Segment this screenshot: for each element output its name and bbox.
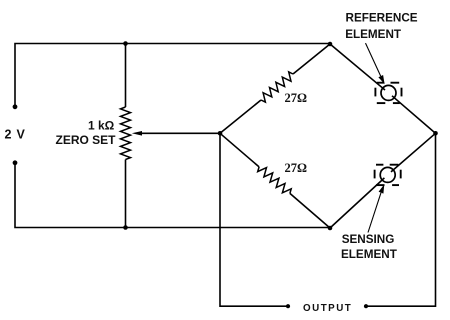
node pot-bottom junction xyxy=(123,225,128,230)
leader sensing arrowhead xyxy=(379,184,385,193)
node bridge right xyxy=(433,131,438,136)
wire sensing-to-right-node xyxy=(391,133,436,172)
wire bottom rail xyxy=(15,163,330,228)
wire output right drop xyxy=(366,133,436,306)
node pot-top junction xyxy=(123,41,128,46)
leader sensing xyxy=(368,193,381,233)
wire pot bottom xyxy=(125,160,127,228)
svg-text:OUTPUT: OUTPUT xyxy=(303,303,352,314)
sensing element circle xyxy=(380,167,395,182)
wire bridge bottom-right (into sensing element) xyxy=(330,178,384,228)
sensing element dashed box xyxy=(375,165,401,185)
svg-text:27Ω: 27Ω xyxy=(285,91,308,105)
reference element circle xyxy=(381,85,396,100)
wire pot top xyxy=(125,44,127,108)
wire bridge top-right (into reference element) xyxy=(330,44,385,90)
svg-text:REFERENCE: REFERENCE xyxy=(346,12,418,25)
svg-text:SENSING: SENSING xyxy=(342,233,395,246)
svg-text:ZERO SET: ZERO SET xyxy=(56,133,117,147)
wire bridge bottom-left upper xyxy=(220,133,259,167)
potentiometer 1kΩ ZERO SET xyxy=(121,107,131,160)
wire bridge top-left upper xyxy=(293,44,330,74)
output terminal left xyxy=(286,304,290,308)
svg-text:ELEMENT: ELEMENT xyxy=(345,28,402,41)
node bridge bottom xyxy=(328,226,333,231)
leader reference arrowhead xyxy=(378,75,384,84)
wire bridge bottom-left lower xyxy=(290,193,330,228)
wire wiper xyxy=(142,132,220,134)
leader reference xyxy=(366,43,381,76)
battery 2V terminal bottom xyxy=(13,160,18,165)
svg-text:27Ω: 27Ω xyxy=(285,161,308,175)
svg-text:2 V: 2 V xyxy=(5,128,26,142)
battery 2V terminal top xyxy=(13,104,18,109)
node bridge top xyxy=(328,42,333,47)
svg-text:ELEMENT: ELEMENT xyxy=(341,248,398,261)
svg-text:1 kΩ: 1 kΩ xyxy=(88,118,115,132)
output terminal right xyxy=(364,304,368,308)
wire reference-to-right-node xyxy=(392,96,436,134)
resistor 27Ω bottom xyxy=(258,167,292,194)
node bridge left xyxy=(218,131,223,136)
resistor 27Ω top xyxy=(261,72,293,102)
wiper arrow xyxy=(132,131,142,136)
wire bridge top-left lower xyxy=(220,100,261,133)
reference element dashed box xyxy=(375,83,401,103)
wire output left drop xyxy=(220,133,288,306)
wire top rail xyxy=(15,44,330,107)
